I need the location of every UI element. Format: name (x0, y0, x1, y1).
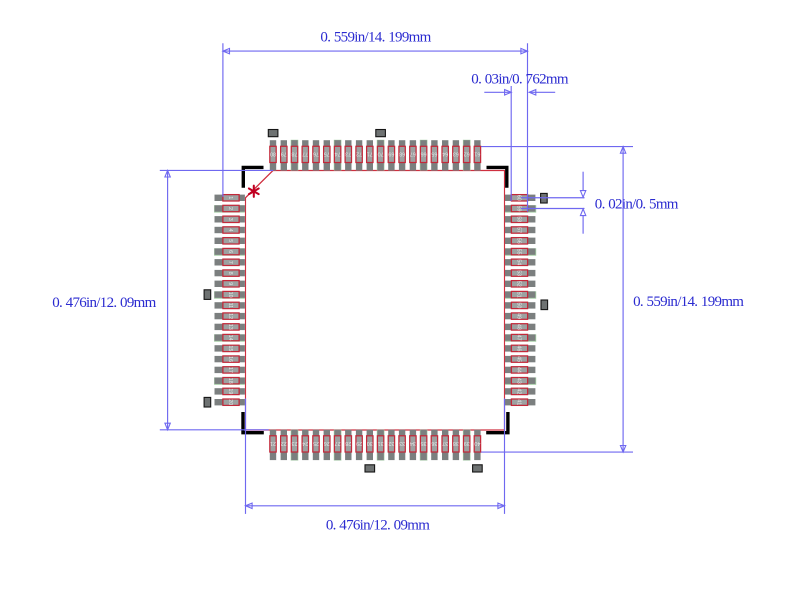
svg-text:63: 63 (453, 151, 459, 157)
pad pin 57 (right column) (505, 227, 535, 233)
svg-text:65: 65 (431, 151, 437, 157)
corner mark bottom-right (486, 412, 508, 433)
svg-text:25: 25 (313, 440, 319, 446)
pad pin 34 (bottom row) (410, 430, 416, 460)
svg-text:76: 76 (313, 151, 319, 157)
extension line bottom of right-side dimension (480, 451, 633, 453)
svg-text:44: 44 (516, 367, 522, 373)
pad pin 71 (top row) (367, 140, 373, 170)
svg-text:0. 476in/12. 09mm: 0. 476in/12. 09mm (52, 295, 156, 311)
svg-text:2: 2 (227, 207, 233, 210)
svg-text:45: 45 (516, 356, 522, 362)
pad pin 65 (top row) (431, 140, 437, 170)
pad pin 25 (bottom row) (313, 430, 319, 460)
pad pin 77 (top row) (302, 140, 308, 170)
pad pin 12 (left column) (215, 313, 245, 319)
svg-text:69: 69 (388, 151, 394, 157)
pad pin 30 (bottom row) (367, 430, 373, 460)
svg-text:8: 8 (227, 272, 233, 275)
pad pin 10 (left column) (214, 291, 245, 298)
svg-text:26: 26 (324, 440, 330, 446)
pad pin 50 (right column) (505, 302, 535, 308)
svg-text:10: 10 (227, 292, 233, 298)
pad pin 59 (right column) (505, 205, 536, 212)
svg-text:68: 68 (399, 151, 405, 157)
svg-text:36: 36 (431, 440, 437, 446)
svg-text:18: 18 (227, 378, 233, 384)
pad pin 47 (right column) (505, 334, 536, 341)
svg-text:32: 32 (388, 440, 394, 446)
svg-text:9: 9 (227, 282, 233, 285)
pad pin 37 (bottom row) (442, 430, 448, 460)
pad pin 28 (bottom row) (345, 430, 351, 460)
marker at pin 50 (541, 300, 548, 310)
pad pin 6 (left column) (214, 248, 245, 255)
svg-text:75: 75 (324, 151, 330, 157)
svg-text:23: 23 (292, 440, 298, 446)
corner mark top-right (487, 167, 507, 187)
corner mark top-left (243, 167, 263, 187)
pad pin 7 (left column) (215, 259, 245, 265)
pad pin 49 (right column) (505, 313, 535, 319)
svg-text:0. 559in/14. 199mm: 0. 559in/14. 199mm (320, 30, 431, 46)
svg-text:22: 22 (281, 440, 287, 446)
pad pin 23 (bottom row) (291, 430, 299, 461)
pad pin 13 (left column) (215, 324, 245, 330)
IC body outline (246, 171, 505, 431)
svg-text:53: 53 (516, 270, 522, 276)
bottom dimension 0.476in/12.09mm (246, 399, 505, 534)
pad pin 39 (bottom row) (463, 430, 471, 461)
svg-text:43: 43 (516, 378, 522, 384)
pad pin 74 (top row) (334, 140, 342, 171)
pad pin 3 (left column) (215, 216, 245, 222)
pad pin 2 (left column) (214, 205, 245, 212)
corner mark bottom-left (243, 412, 264, 433)
marker at pin 30 (365, 465, 375, 472)
svg-text:62: 62 (464, 151, 470, 157)
svg-text:56: 56 (516, 238, 522, 244)
pad pin 14 (left column) (214, 334, 245, 341)
pad pin 27 (bottom row) (334, 430, 342, 461)
pad pin 48 (right column) (505, 324, 535, 330)
svg-text:27: 27 (335, 440, 341, 446)
pad pin 80 (top row) (270, 140, 276, 170)
dimension 0.02in/0.5mm (521, 172, 679, 234)
svg-text:14: 14 (227, 335, 233, 341)
svg-text:13: 13 (227, 324, 233, 330)
svg-text:58: 58 (516, 216, 522, 222)
svg-text:7: 7 (227, 261, 233, 264)
pad pin 76 (top row) (313, 140, 319, 170)
marker at pin 20 (204, 397, 211, 407)
svg-text:64: 64 (442, 151, 448, 157)
pin-1 chamfer diagonal (246, 171, 274, 198)
pad pin 72 (top row) (356, 140, 362, 170)
svg-text:29: 29 (356, 440, 362, 446)
svg-text:46: 46 (516, 345, 522, 351)
svg-text:59: 59 (516, 206, 522, 212)
pad pin 11 (left column) (215, 302, 245, 308)
svg-text:49: 49 (516, 313, 522, 319)
svg-text:11: 11 (227, 303, 233, 309)
pad pin 26 (bottom row) (324, 430, 330, 460)
pad pin 62 (top row) (463, 140, 471, 171)
svg-text:70: 70 (378, 151, 384, 157)
pad pin 38 (bottom row) (453, 430, 459, 460)
pad pin 20 (left column) (215, 399, 245, 405)
pad pin 5 (left column) (215, 238, 245, 244)
pad pin 73 (top row) (345, 140, 351, 170)
svg-text:60: 60 (516, 195, 522, 201)
svg-text:40: 40 (474, 440, 480, 446)
marker at pin 60 (541, 193, 548, 203)
svg-text:19: 19 (227, 388, 233, 394)
pad pin 8 (left column) (215, 270, 245, 276)
pad pin 19 (left column) (215, 388, 245, 394)
svg-text:0. 476in/12. 09mm: 0. 476in/12. 09mm (326, 518, 430, 534)
svg-text:55: 55 (516, 249, 522, 255)
pad pin 17 (left column) (215, 367, 245, 373)
pad pin 24 (bottom row) (302, 430, 308, 460)
marker at pin 40 (473, 465, 483, 472)
pad pin 9 (left column) (215, 281, 245, 287)
svg-text:74: 74 (335, 151, 341, 157)
pad pin 56 (right column) (505, 238, 535, 244)
pad pin 46 (right column) (505, 345, 535, 351)
pad pin 40 (bottom row) (474, 430, 480, 460)
pad pin 32 (bottom row) (388, 430, 394, 460)
pad pin 52 (right column) (505, 281, 535, 287)
pad pin 61 (top row) (474, 140, 480, 170)
pad pin 75 (top row) (324, 140, 330, 170)
svg-text:80: 80 (270, 151, 276, 157)
svg-text:61: 61 (474, 151, 480, 157)
pin-1 marker asterisk (249, 186, 259, 197)
pad pin 69 (top row) (388, 140, 394, 170)
pad pin 21 (bottom row) (270, 430, 276, 460)
marker at pin 70 (376, 130, 386, 137)
pad pin 55 (right column) (505, 248, 536, 255)
pad pin 54 (right column) (505, 259, 535, 265)
pad pin 68 (top row) (399, 140, 405, 170)
svg-text:28: 28 (345, 440, 351, 446)
pad pin 29 (bottom row) (356, 430, 362, 460)
svg-text:79: 79 (281, 151, 287, 157)
pad pin 33 (bottom row) (399, 430, 405, 460)
svg-text:66: 66 (421, 151, 427, 157)
pad pin 41 (right column) (505, 399, 535, 405)
pad pin 45 (right column) (505, 356, 535, 362)
svg-text:47: 47 (516, 335, 522, 341)
pad pin 66 (top row) (420, 140, 428, 171)
dimension 0.03in/0.762mm (471, 72, 569, 201)
pad pin 31 (bottom row) (377, 430, 385, 461)
svg-text:0. 03in/0. 762mm: 0. 03in/0. 762mm (471, 72, 569, 88)
top dimension 0.559in/14.199mm (223, 30, 528, 212)
svg-text:77: 77 (302, 151, 308, 157)
pad pin 67 (top row) (410, 140, 416, 170)
svg-text:48: 48 (516, 324, 522, 330)
pad pin 36 (bottom row) (431, 430, 437, 460)
svg-text:0. 559in/14. 199mm: 0. 559in/14. 199mm (633, 294, 744, 310)
pad pin 44 (right column) (505, 367, 535, 373)
pad pin 18 (left column) (214, 377, 245, 384)
pad pin 60 (right column) (505, 195, 535, 201)
extension line top of right-side dimension (480, 146, 633, 148)
svg-text:35: 35 (421, 440, 427, 446)
svg-text:42: 42 (516, 388, 522, 394)
svg-text:24: 24 (302, 440, 308, 446)
svg-text:0. 02in/0. 5mm: 0. 02in/0. 5mm (595, 197, 679, 213)
svg-text:67: 67 (410, 151, 416, 157)
left dimension 0.476in/12.09mm (52, 170, 273, 429)
svg-text:21: 21 (270, 440, 276, 446)
svg-text:20: 20 (227, 399, 233, 405)
pad pin 70 (top row) (377, 140, 385, 171)
svg-text:30: 30 (367, 440, 373, 446)
pad pin 58 (right column) (505, 216, 535, 222)
pad pin 53 (right column) (505, 270, 535, 276)
svg-text:15: 15 (227, 345, 233, 351)
pad pin 63 (top row) (453, 140, 459, 170)
svg-text:78: 78 (292, 151, 298, 157)
svg-text:37: 37 (442, 440, 448, 446)
svg-text:54: 54 (516, 259, 522, 265)
pad pin 78 (top row) (291, 140, 299, 171)
pad pin 51 (right column) (505, 291, 536, 298)
marker at pin 80 (268, 130, 278, 137)
svg-text:17: 17 (227, 367, 233, 373)
svg-text:72: 72 (356, 151, 362, 157)
svg-text:71: 71 (367, 151, 373, 157)
pad pin 16 (left column) (215, 356, 245, 362)
svg-text:1: 1 (227, 196, 233, 199)
pad pin 79 (top row) (281, 140, 287, 170)
svg-text:41: 41 (516, 399, 522, 405)
svg-text:52: 52 (516, 281, 522, 287)
pad pin 22 (bottom row) (281, 430, 287, 460)
svg-text:57: 57 (516, 227, 522, 233)
svg-text:73: 73 (345, 151, 351, 157)
marker at pin 10 (204, 290, 211, 300)
svg-text:38: 38 (453, 440, 459, 446)
pad pin 64 (top row) (442, 140, 448, 170)
right dimension 0.559in/14.199mm (620, 147, 744, 453)
pad pin 35 (bottom row) (420, 430, 428, 461)
pad pin 1 (left column) (215, 195, 245, 201)
svg-text:31: 31 (378, 440, 384, 446)
svg-text:50: 50 (516, 302, 522, 308)
svg-text:3: 3 (227, 218, 233, 221)
pad pin 4 (left column) (215, 227, 245, 233)
svg-text:34: 34 (410, 440, 416, 446)
pad pin 43 (right column) (505, 377, 536, 384)
svg-text:33: 33 (399, 440, 405, 446)
pad pin 42 (right column) (505, 388, 535, 394)
svg-text:5: 5 (227, 239, 233, 242)
svg-text:6: 6 (227, 250, 233, 253)
pad pin 15 (left column) (215, 345, 245, 351)
svg-text:51: 51 (516, 292, 522, 298)
svg-text:16: 16 (227, 356, 233, 362)
svg-text:12: 12 (227, 313, 233, 319)
svg-text:39: 39 (464, 440, 470, 446)
svg-text:4: 4 (227, 229, 233, 232)
